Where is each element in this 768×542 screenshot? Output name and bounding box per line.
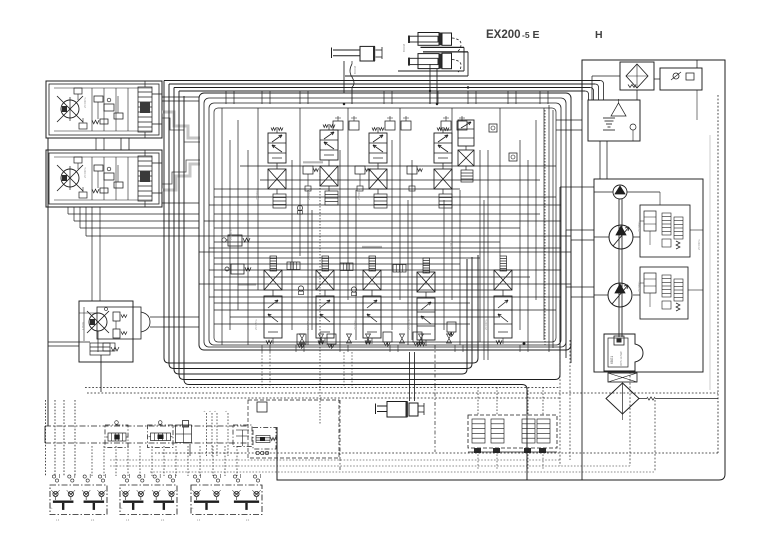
svg-text:25.5MPa: 25.5MPa <box>637 281 641 292</box>
pilot relief valve <box>225 264 251 274</box>
main spool: travel right <box>268 127 286 208</box>
main spool: boom 1 <box>369 127 387 208</box>
svg-text:25.5MPa: 25.5MPa <box>306 319 310 330</box>
svg-text:6BG1: 6BG1 <box>610 356 614 364</box>
suction strainer <box>606 383 718 420</box>
pilot manifold risers <box>340 300 655 472</box>
regulator pump 1 <box>640 205 690 257</box>
accumulator unit <box>248 400 339 458</box>
svg-text:25.5MPa: 25.5MPa <box>229 229 233 240</box>
pilot risers dotted <box>46 400 238 476</box>
pilot drain dotted <box>320 110 545 425</box>
pilot valve center (left joystick) <box>120 485 177 522</box>
bucket cylinder <box>332 46 383 87</box>
svg-text:25.5MPa: 25.5MPa <box>637 221 641 232</box>
svg-text:-5: -5 <box>522 30 530 40</box>
solenoid valve unit A <box>105 421 128 448</box>
main pump 1 <box>594 225 633 249</box>
hydraulic tank <box>588 99 640 179</box>
bypass check valve <box>654 60 702 90</box>
small labels <box>83 97 701 330</box>
svg-text:25.5MPa: 25.5MPa <box>357 189 361 200</box>
wire return bundle wrap <box>164 81 560 481</box>
svg-text:25.5MPa: 25.5MPa <box>449 239 453 250</box>
engine <box>604 334 643 371</box>
svg-text:OPS 117kW: OPS 117kW <box>619 351 623 366</box>
passage highlight bands <box>238 162 382 284</box>
svg-text:25.5MPa: 25.5MPa <box>307 189 311 200</box>
travel motor unit (left track) <box>46 81 162 138</box>
pilot gear pump <box>594 185 660 199</box>
pilot junction dotted verticals <box>205 410 229 456</box>
load check small <box>489 124 517 161</box>
pump unit frame <box>594 135 710 390</box>
main pump 2 <box>594 283 632 307</box>
svg-text:EX200: EX200 <box>486 29 521 41</box>
regulator pump 2 <box>640 267 688 319</box>
small poppet valves lower <box>297 205 356 295</box>
svg-text:H: H <box>595 29 603 41</box>
pilot valve right (right joystick) <box>191 485 262 522</box>
travel motor unit (right track) <box>46 150 162 207</box>
main spool: straight travel <box>494 256 512 344</box>
wire block top ports <box>226 61 548 104</box>
main spool: swing <box>264 256 282 344</box>
svg-text:25.5MPa: 25.5MPa <box>484 319 488 330</box>
main spool: arm 1 <box>363 256 381 344</box>
coupling <box>608 371 637 382</box>
wire travel crossover <box>96 138 129 150</box>
svg-text:25.5MPa: 25.5MPa <box>83 97 87 108</box>
solenoid valve unit B <box>148 421 174 448</box>
oil cooler <box>592 62 654 100</box>
pilot shutoff unit <box>253 402 276 455</box>
title EX200-5 E <box>486 29 540 41</box>
main relief valve <box>222 235 250 246</box>
wire swing to valve <box>150 317 199 327</box>
main spool: boom 2 <box>316 256 334 344</box>
wire pump to valve feeds <box>549 105 594 363</box>
pilot valve left (travel) <box>50 485 107 522</box>
wire main pressure bus <box>164 71 600 91</box>
main spool: arm 2 <box>434 127 452 208</box>
main spool: aux <box>417 258 435 346</box>
boom cylinders <box>402 33 468 77</box>
shockless valve unit <box>176 421 192 457</box>
junction dots <box>343 86 697 345</box>
svg-text:E: E <box>533 29 540 41</box>
pump drive shaft <box>614 199 624 345</box>
port relief valves <box>297 322 456 349</box>
pilot ports dotted <box>52 474 260 482</box>
wire internal verticals <box>222 108 544 360</box>
control valve block outline <box>199 93 571 350</box>
svg-text:25.5MPa: 25.5MPa <box>255 189 259 200</box>
wire bus tank elbows <box>585 81 604 101</box>
pilot line frame dotted <box>155 95 718 453</box>
svg-text:25.5MPa: 25.5MPa <box>697 239 701 250</box>
svg-text:4.9MPa: 4.9MPa <box>82 321 85 330</box>
svg-text:25.5MPa: 25.5MPa <box>254 319 258 330</box>
reservoir circuit frame <box>277 60 725 480</box>
swing motor unit <box>48 207 150 392</box>
wire gallery lines <box>199 166 571 324</box>
svg-text:25.5MPa: 25.5MPa <box>407 319 411 330</box>
inter-section striped boxes lower <box>287 262 406 272</box>
svg-text:BOOM: BOOM <box>402 44 406 52</box>
svg-text:25.5MPa: 25.5MPa <box>83 167 87 178</box>
long pilot laterals dotted <box>85 388 718 473</box>
anti-cavitation checks <box>300 334 452 343</box>
hose channel travel-to-valve <box>162 97 200 203</box>
wire block bottom ports <box>262 345 528 387</box>
main spool: travel left <box>458 120 474 182</box>
svg-text:25.5MPa: 25.5MPa <box>353 319 357 330</box>
wire left feeds <box>48 138 199 426</box>
wire regulator links <box>633 192 703 295</box>
pilot filter unit <box>233 425 252 447</box>
svg-text:BOOM: BOOM <box>353 66 357 74</box>
main spool: bucket <box>320 124 338 205</box>
arm cylinder <box>376 352 425 417</box>
title H <box>595 29 603 41</box>
solenoid manifold <box>468 415 557 453</box>
pilot check caps <box>333 116 467 130</box>
pilot bus dash-dot <box>45 426 247 443</box>
inter-section compensator valves upper <box>303 166 423 191</box>
